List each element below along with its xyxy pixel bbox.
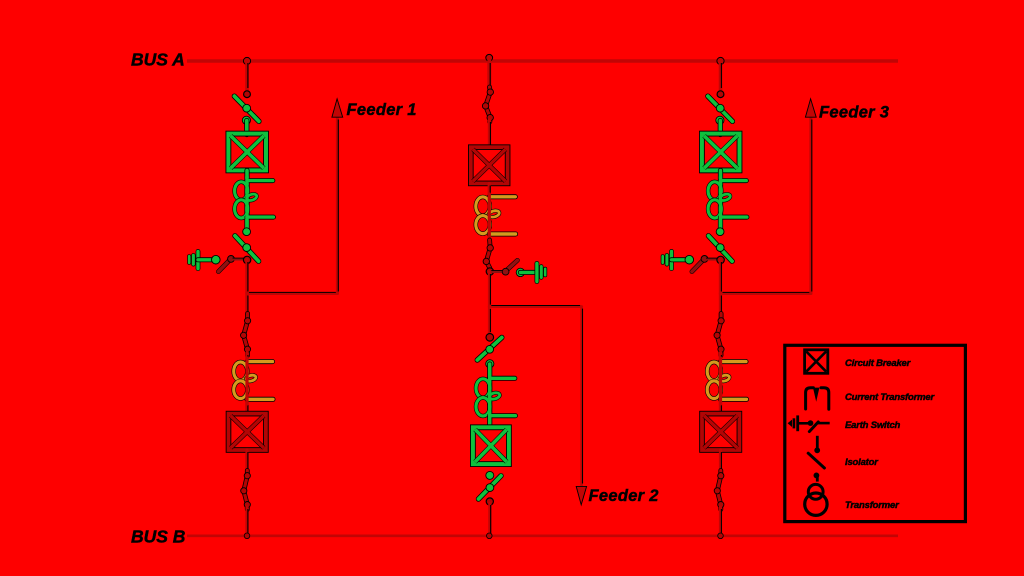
isolator bay 1 lower line side (open, energized) [235,236,259,261]
feeder arrow bay 1 [332,99,343,117]
svg-text:Earth Switch: Earth Switch [845,420,901,431]
node bay 2 isolator pivot [486,360,494,368]
node bay 2 bottom contact [486,498,493,505]
current transformer bay 3 lower (de-energized) [721,359,747,364]
wire bay 3 to lower CT [719,353,722,413]
node bus B junction bay 1 [244,533,250,539]
node bay 1 isolator top contact [244,91,251,98]
circuit breaker bay 3 lower (open, de-energized) [702,414,739,450]
node bay 2 earth switch contact [516,268,524,276]
isolator bay 3 upper (open, energized) [708,96,733,121]
wire bay 1 bus A drop [245,61,249,90]
ground bay 1 earth electrode [187,256,191,263]
earth switch bay 1 (open arm) [218,259,230,272]
legend circuit breaker symbol [805,350,828,374]
isolator bay 1 upper (open, energized) [234,96,259,121]
circuit breaker bay 3 upper (closed, energized) [702,134,740,171]
node bay 1 main junction [243,256,250,263]
node bay 1 earth switch contact [212,255,221,264]
bus B [187,534,898,537]
svg-text:Isolator: Isolator [845,457,879,468]
node bay 1 CT bottom [243,228,251,236]
ground bay 2 earth electrode [535,263,540,281]
wire bay 1 to bus B [245,507,248,536]
isolator bay 1 bus B side lower (closed) [244,471,248,510]
svg-text:BUS A: BUS A [131,50,185,70]
wire bay 3 lower drop [719,294,722,317]
bus A [187,59,898,63]
svg-text:Circuit Breaker: Circuit Breaker [845,358,912,369]
circuit breaker bay 1 upper (closed, energized) [228,134,266,171]
wire bay 3 bus A drop [719,61,723,90]
wire feeder tee bay 3 [721,292,811,295]
legend earth switch symbol [788,420,792,427]
current transformer bay 2 upper (de-energized) [489,194,515,199]
wire bay 1 isolator to breaker [244,121,249,135]
node bay 3 isolator top contact [717,91,724,98]
legend current transformer symbol [806,388,814,409]
wire bay 3 isolator to breaker [718,121,723,135]
circuit breaker bay 2 upper (open, de-energized) [471,147,508,183]
isolator bay 3 lower line side (open, energized) [709,236,733,261]
circuit breaker bay 2 lower (closed, energized) [473,427,509,464]
node bay 3 earth switch contact [685,255,694,264]
svg-text:Feeder 1: Feeder 1 [347,101,417,119]
wire bay 2 junction drop [488,272,491,307]
current transformer bay 1 lower (de-energized) [247,359,273,364]
current transformer bay 1 upper (energized) [247,178,273,183]
wire bay 1 to lower CT [245,353,248,413]
node bus B junction bay 2 [487,533,493,539]
legend isolator symbol [816,436,819,449]
svg-text:Feeder 2: Feeder 2 [589,487,659,505]
circuit breaker bay 1 lower (open, de-energized) [229,414,266,450]
wire bay 3 earth link [672,257,690,262]
node bay 3 main junction [717,256,724,263]
wire bay 1 junction drop [245,260,248,294]
wire bay 2 to bus B [488,503,491,536]
wire bay 3 breaker to CT [718,171,723,231]
wire bay 2 isolator to breaker [488,120,491,148]
earth switch bay 2 (open arm) [490,270,506,273]
isolator bay 2 bus B side upper (open, energized) [477,338,502,361]
node bus A junction bay 3 [717,57,724,64]
current transformer bay 3 upper (energized) [721,178,747,183]
wire bay 2 earth link [520,270,536,275]
svg-text:Transformer: Transformer [845,500,900,511]
node bay 2 main junction [486,268,493,275]
wire bay 3 breaker to isolator [719,450,722,472]
isolator bay 3 bus B side upper (closed) [717,314,721,356]
wire bay 2 isolator to CT [487,364,492,427]
node bay 2 lower isolator top contact [486,334,494,342]
wire bay 3 to bus B [719,507,722,536]
earth switch bay 3 (open arm) [692,259,704,272]
legend box [785,345,966,521]
current transformer bay 2 lower (energized) [490,376,515,381]
legend transformer symbol [808,484,823,499]
feeder 2 arrow [576,486,586,504]
wire bay 1 breaker to CT [244,171,249,231]
wire bay 1 lower drop [245,294,248,317]
wire feeder 2 tee [489,305,581,308]
svg-text:Feeder 3: Feeder 3 [819,103,889,121]
wire bay 1 earth link [198,257,216,262]
feeder arrow bay 3 [805,99,816,117]
node bus A junction bay 1 [243,57,250,64]
ground bay 3 earth electrode [661,256,665,263]
wire bay 3 junction drop [719,260,722,294]
wire bay 2 breaker to CT [488,183,491,246]
wire feeder tee bay 1 [247,292,337,295]
node bay 3 CT bottom [716,228,724,236]
svg-text:BUS B: BUS B [131,527,185,547]
wire bay 2 to lower isolator [488,307,491,334]
wire bay 2 bus A drop [487,61,491,90]
isolator bay 2 bus B side lower (open, energized) [479,476,502,499]
wire bay 1 breaker to isolator [245,450,248,472]
isolator bay 2 upper (closed, de-energized) [486,87,491,122]
isolator bay 1 bus B side upper (closed) [244,314,248,356]
node bus A junction bay 2 [486,54,493,61]
node bus B junction bay 3 [718,533,724,539]
isolator bay 3 bus B side lower (closed) [717,471,721,510]
svg-text:Current Transformer: Current Transformer [845,392,935,403]
isolator bay 2 lower line side (closed) [486,240,490,268]
node bay 2 lower breaker bottom [486,471,494,479]
